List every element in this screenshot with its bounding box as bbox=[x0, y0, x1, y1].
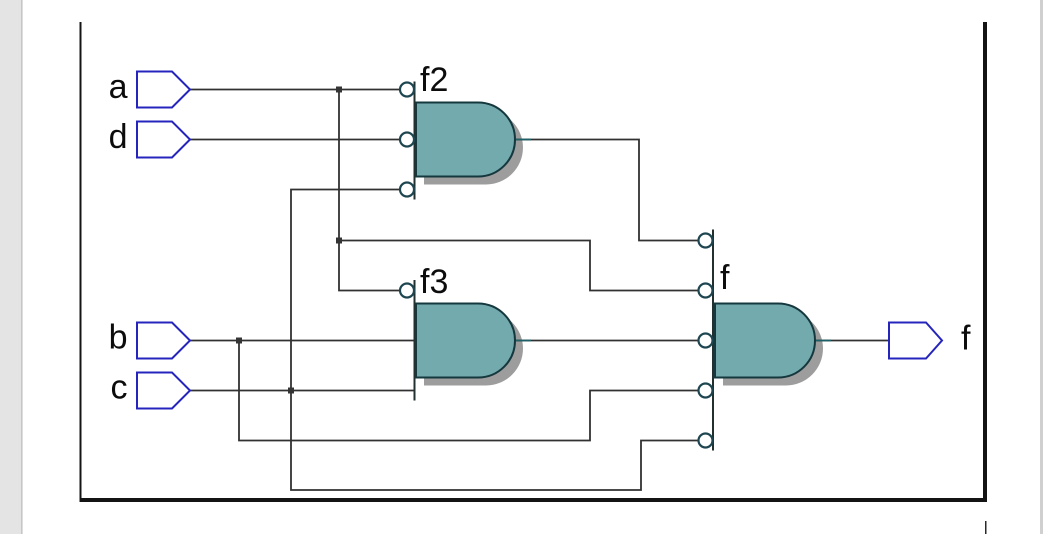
AND gate f pin2 bubble bbox=[699, 284, 713, 298]
junction on net b bbox=[236, 338, 242, 344]
wire net b: port b to f3 pin2 bbox=[190, 340, 414, 342]
junction on net a lower bbox=[336, 238, 342, 244]
wire net b: branch to f pin4 bbox=[239, 341, 699, 441]
shadow of AND gate f3 bbox=[424, 312, 523, 386]
wire stub f3 output bbox=[514, 340, 531, 342]
svg-text:b: b bbox=[109, 319, 128, 357]
svg-text:c: c bbox=[111, 369, 128, 407]
svg-text:a: a bbox=[109, 68, 128, 106]
canvas frame left border bbox=[80, 22, 82, 502]
AND gate f body bbox=[715, 304, 815, 378]
input port c symbol bbox=[137, 373, 190, 409]
AND gate f pin5 bubble bbox=[699, 434, 713, 448]
svg-text:d: d bbox=[109, 118, 128, 156]
AND gate f2 input bar bbox=[414, 82, 416, 200]
wire stub f output bbox=[814, 340, 831, 342]
svg-text:f2: f2 bbox=[420, 61, 448, 99]
svg-text:f3: f3 bbox=[420, 263, 448, 301]
shadow of AND gate f bbox=[723, 312, 823, 386]
canvas frame right border bbox=[983, 22, 987, 502]
AND gate f2 body bbox=[416, 103, 515, 177]
AND gate f2 pin2 bubble bbox=[400, 133, 414, 147]
wire net f2out: f2 output to f pin1 bbox=[515, 140, 699, 241]
wire net f: f output to port f bbox=[815, 340, 889, 342]
canvas frame bottom border bbox=[80, 498, 988, 502]
junction on net c bbox=[288, 388, 294, 394]
wire net f3out: f3 output to f pin3 bbox=[515, 340, 699, 342]
AND gate f3 pin1 bubble bbox=[400, 284, 414, 298]
AND gate f pin1 bubble bbox=[699, 234, 713, 248]
wire net d: port d to f2 pin2 bbox=[190, 139, 400, 141]
svg-text:f: f bbox=[720, 259, 730, 297]
AND gate f input bar bbox=[712, 230, 714, 451]
AND gate f2 pin1 bubble bbox=[400, 83, 414, 97]
input port d symbol bbox=[137, 122, 190, 158]
AND gate f pin4 bubble bbox=[699, 384, 713, 398]
wire net c: f2 pin3 vertical trunk bbox=[291, 190, 699, 491]
junction on net a bbox=[336, 87, 342, 93]
output port f symbol bbox=[889, 323, 942, 359]
input port b symbol bbox=[137, 323, 190, 359]
wire net a: port a to f2 pin1 bbox=[190, 89, 400, 91]
wire net c: port c to f3 pin3 bbox=[190, 390, 414, 392]
AND gate f2 pin3 bubble bbox=[400, 183, 414, 197]
AND gate f3 input bar bbox=[414, 280, 416, 401]
wire net a: vertical branch down to f3 pin1 bbox=[339, 90, 400, 291]
input port a symbol bbox=[137, 72, 190, 108]
svg-text:f: f bbox=[961, 320, 971, 358]
wire stub f2 output bbox=[514, 139, 531, 141]
AND gate f pin3 bubble bbox=[699, 334, 713, 348]
scrollbar tick bottom right bbox=[985, 521, 987, 534]
shadow of AND gate f2 bbox=[424, 111, 523, 185]
wire net a: branch to f pin2 bbox=[339, 241, 699, 291]
AND gate f3 body bbox=[416, 304, 515, 378]
